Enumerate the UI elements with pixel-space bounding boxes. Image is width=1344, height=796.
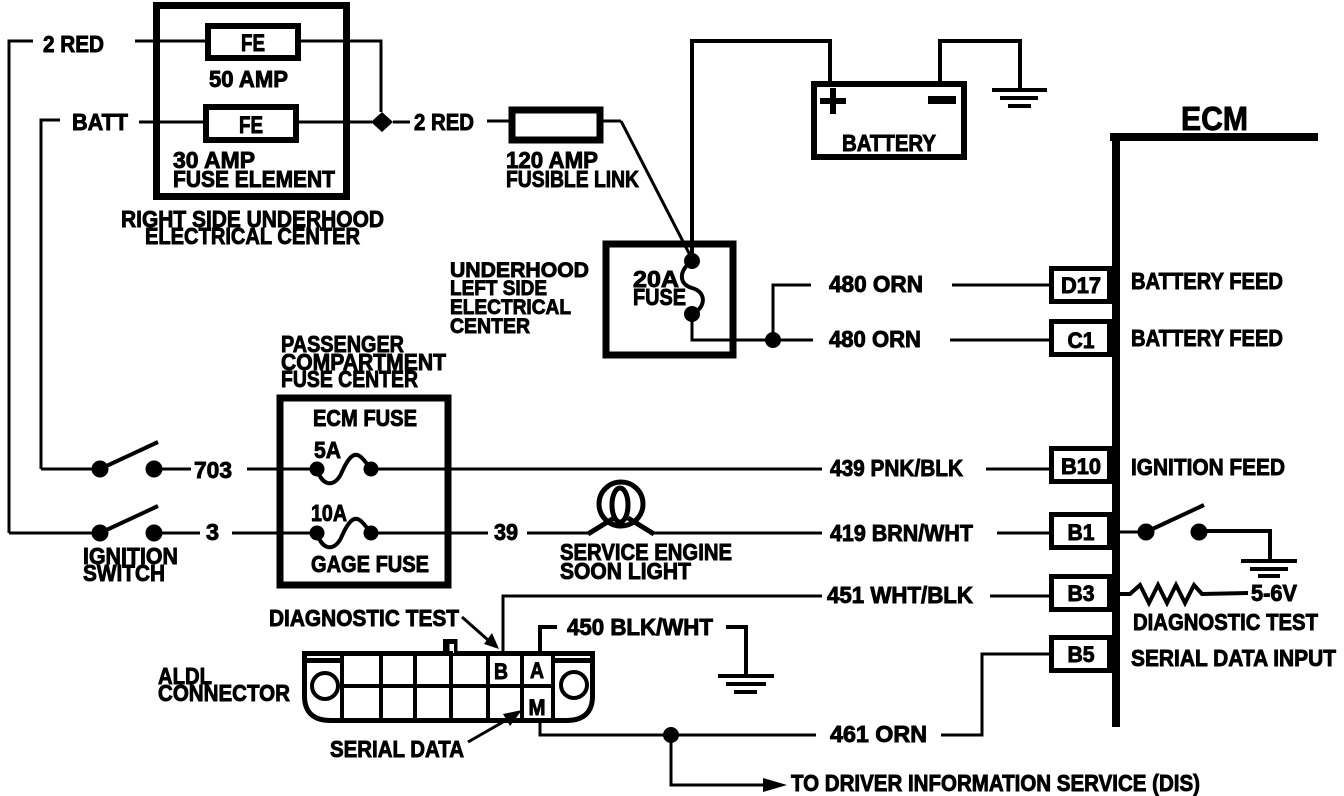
wire 450 bracket to A pin xyxy=(540,627,557,651)
wire fusible link right stub xyxy=(600,120,621,123)
svg-text:CENTER: CENTER xyxy=(450,314,530,338)
ALDL divider 7 xyxy=(551,651,555,721)
svg-text:461 ORN: 461 ORN xyxy=(830,721,927,747)
svg-text:ELECTRICAL CENTER: ELECTRICAL CENTER xyxy=(145,223,360,249)
pin D17 box xyxy=(1052,269,1110,302)
svg-text:439 PNK/BLK: 439 PNK/BLK xyxy=(830,455,963,481)
fuse 10A element curve xyxy=(317,519,371,547)
wire 2 RED to FE1 xyxy=(135,40,208,43)
wire B1 to switch xyxy=(1120,531,1140,534)
lamp right leg xyxy=(628,518,654,534)
svg-text:B10: B10 xyxy=(1061,454,1101,479)
svg-text:TO DRIVER INFORMATION SERVICE: TO DRIVER INFORMATION SERVICE (DIS) xyxy=(791,770,1200,796)
svg-text:SWITCH: SWITCH xyxy=(83,560,165,586)
svg-text:480 ORN: 480 ORN xyxy=(829,271,923,297)
svg-text:M: M xyxy=(529,695,546,720)
pin B10 box xyxy=(1052,449,1110,482)
svg-text:BATTERY FEED: BATTERY FEED xyxy=(1131,268,1283,294)
svg-text:DIAGNOSTIC TEST: DIAGNOSTIC TEST xyxy=(1133,609,1318,635)
fuse 20A element curve xyxy=(682,261,703,314)
ALDL left hole xyxy=(312,673,338,699)
junction dot 461 xyxy=(663,727,679,743)
wire 2 RED to fusible link xyxy=(487,120,512,123)
ALDL mid divider xyxy=(342,684,553,688)
ALDL top tab xyxy=(443,639,458,653)
svg-text:B5: B5 xyxy=(1068,642,1095,667)
wire FE2 to junction xyxy=(296,121,372,124)
svg-text:CONNECTOR: CONNECTOR xyxy=(158,680,290,706)
ALDL divider 4 xyxy=(449,651,453,723)
ground symbol (battery) xyxy=(992,90,1047,106)
wire junction to 480 ORN lower xyxy=(781,339,813,342)
wire junction to DIS arrow xyxy=(671,735,764,785)
lamp bulb circle xyxy=(599,482,643,526)
wire junction to 480 ORN upper xyxy=(773,285,811,340)
svg-text:FE: FE xyxy=(241,30,265,57)
pin B5 box xyxy=(1052,638,1110,671)
diag switch right dot xyxy=(1191,524,1208,541)
ALDL divider 1 xyxy=(340,651,344,721)
svg-text:FE: FE xyxy=(239,112,263,139)
fuse 10A right dot xyxy=(364,526,379,541)
svg-text:IGNITION FEED: IGNITION FEED xyxy=(1131,454,1285,480)
lamp filament loop xyxy=(612,488,628,522)
junction diamond node xyxy=(371,112,393,132)
svg-text:BATT: BATT xyxy=(72,109,128,135)
svg-text:B3: B3 xyxy=(1068,581,1095,606)
ALDL inner top line right xyxy=(555,658,591,663)
resistor (diagnostic) xyxy=(1120,585,1248,603)
svg-text:B: B xyxy=(494,659,508,684)
diag switch blade xyxy=(1146,505,1204,532)
svg-text:FUSE ELEMENT: FUSE ELEMENT xyxy=(173,166,335,192)
wire 3 to fuse box xyxy=(232,532,311,535)
svg-text:5A: 5A xyxy=(314,437,341,463)
junction dot 480 xyxy=(765,332,781,348)
wire 451 to B3 xyxy=(990,595,1051,598)
fuse 20A bottom dot xyxy=(684,306,700,322)
pin B3 box xyxy=(1052,577,1110,610)
lamp left leg xyxy=(588,518,614,534)
fuse 5A element curve xyxy=(317,455,371,483)
ALDL divider 3 xyxy=(413,651,417,723)
svg-text:FUSE: FUSE xyxy=(633,284,686,310)
wire 461 to B5 xyxy=(941,654,1051,735)
svg-text:10A: 10A xyxy=(311,500,347,526)
arrow serial data xyxy=(468,722,503,742)
wire 703 to fuse box xyxy=(247,468,311,471)
box right side underhood electrical center xyxy=(157,6,347,197)
ALDL connector outline xyxy=(305,654,593,721)
svg-text:BATTERY FEED: BATTERY FEED xyxy=(1131,325,1283,351)
svg-text:SERIAL DATA: SERIAL DATA xyxy=(330,736,464,762)
svg-text:SERIAL DATA INPUT: SERIAL DATA INPUT xyxy=(1131,645,1336,671)
ignition switch 2 right dot xyxy=(146,525,163,542)
svg-text:451 WHT/BLK: 451 WHT/BLK xyxy=(827,582,973,608)
svg-text:BATTERY: BATTERY xyxy=(842,130,936,156)
wire gage fuse to 39 xyxy=(377,532,488,535)
wire 480 ORN to C1 xyxy=(950,339,1049,342)
wire switch 2 to 3 xyxy=(162,532,200,535)
wire junction to 2 RED label xyxy=(393,121,410,124)
fusible link 120A box xyxy=(512,110,600,140)
svg-text:5-6V: 5-6V xyxy=(1251,580,1298,606)
fuse element FE 50A box xyxy=(208,26,298,58)
fuse 5A left dot xyxy=(310,462,325,477)
wire FE1 to corner down xyxy=(298,41,381,112)
ECM vertical bar xyxy=(1112,133,1120,727)
svg-text:FUSIBLE LINK: FUSIBLE LINK xyxy=(506,166,639,192)
svg-text:419 BRN/WHT: 419 BRN/WHT xyxy=(830,520,973,546)
svg-text:50 AMP: 50 AMP xyxy=(209,66,288,92)
fuse 20A top dot xyxy=(684,253,700,269)
ALDL divider 2 xyxy=(379,651,383,723)
wire M pin down to 461 xyxy=(540,719,671,735)
wire junction to 461 label xyxy=(671,734,816,737)
ignition switch 2 blade xyxy=(100,506,158,533)
ignition switch 2 left dot xyxy=(92,525,109,542)
svg-text:ECM FUSE: ECM FUSE xyxy=(313,405,417,431)
fuse element FE 30A box xyxy=(206,107,296,140)
ignition switch 1 right dot xyxy=(146,461,163,478)
svg-text:3: 3 xyxy=(206,519,219,545)
wire 39 to lamp xyxy=(527,532,590,535)
wire BATT bracket xyxy=(41,120,60,469)
svg-text:GAGE FUSE: GAGE FUSE xyxy=(311,551,429,577)
svg-text:DIAGNOSTIC TEST: DIAGNOSTIC TEST xyxy=(269,605,459,631)
20A fuse box xyxy=(606,244,733,355)
svg-text:A: A xyxy=(530,658,544,683)
wire diagonal fusible link to 20A fuse xyxy=(621,121,692,259)
svg-text:D17: D17 xyxy=(1061,273,1101,298)
fuse 10A left dot xyxy=(310,526,325,541)
wire 20A fuse output xyxy=(692,314,773,340)
wire 2red vertical to switch 2 xyxy=(9,532,92,535)
wire switch 1 to 703 xyxy=(162,468,191,471)
arrow diagnostic test xyxy=(462,617,488,640)
ground symbol (diag switch) xyxy=(1241,561,1297,576)
ignition switch 1 blade xyxy=(100,442,158,469)
ALDL divider 5 xyxy=(486,651,490,723)
svg-text:2 RED: 2 RED xyxy=(43,31,104,57)
fuse 5A right dot xyxy=(364,462,379,477)
wire 439 to B10 xyxy=(986,468,1051,471)
svg-text:450 BLK/WHT: 450 BLK/WHT xyxy=(567,614,713,640)
svg-text:SOON LIGHT: SOON LIGHT xyxy=(560,558,691,584)
wire left bracket top xyxy=(9,41,33,533)
svg-text:FUSE CENTER: FUSE CENTER xyxy=(281,366,418,392)
wire 439 PNK/BLK left xyxy=(377,468,822,471)
svg-text:2 RED: 2 RED xyxy=(414,109,474,135)
battery box xyxy=(814,84,964,157)
svg-text:C1: C1 xyxy=(1068,328,1095,353)
wire 451 from corner xyxy=(503,596,822,653)
wire 450 bracket to ground xyxy=(726,627,746,674)
ALDL inner top line left xyxy=(306,658,340,663)
wire battery minus to ground xyxy=(940,41,1020,89)
svg-text:B1: B1 xyxy=(1068,520,1095,545)
svg-text:703: 703 xyxy=(194,457,232,483)
wire battery plus feed xyxy=(692,41,830,259)
wire switch to ground xyxy=(1207,531,1270,559)
fuse center box xyxy=(280,398,448,585)
wire BATT to FE2 xyxy=(139,121,206,124)
diag switch left dot xyxy=(1138,524,1155,541)
arrow DIS xyxy=(763,778,787,792)
ignition switch 1 left dot xyxy=(92,461,109,478)
svg-text:ECM: ECM xyxy=(1181,100,1248,137)
svg-text:480 ORN: 480 ORN xyxy=(829,326,921,352)
ground symbol (450) xyxy=(718,676,774,692)
ECM top bar xyxy=(1110,133,1318,141)
wire lamp to 419 xyxy=(652,532,822,535)
battery plus symbol xyxy=(820,88,846,114)
wire 419 to B1 xyxy=(997,532,1051,535)
ALDL divider 6 xyxy=(520,651,524,723)
svg-text:39: 39 xyxy=(494,519,518,545)
wire batt vertical to switch 1 xyxy=(41,468,92,471)
battery minus symbol xyxy=(928,96,956,104)
wire 480 ORN to D17 xyxy=(952,284,1049,287)
pin B1 box xyxy=(1052,515,1110,548)
pin C1 box xyxy=(1052,322,1110,355)
ALDL right hole xyxy=(561,672,587,698)
